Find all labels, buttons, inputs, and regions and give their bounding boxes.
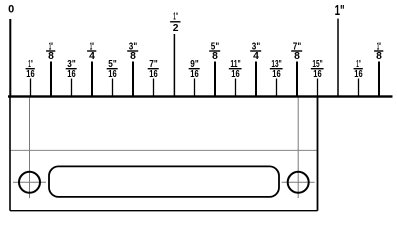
- svg-text:4: 4: [253, 51, 259, 62]
- svg-text:16: 16: [313, 69, 322, 80]
- svg-text:16: 16: [190, 69, 199, 80]
- svg-text:0: 0: [8, 4, 14, 16]
- svg-text:8: 8: [48, 51, 54, 62]
- svg-text:16: 16: [108, 69, 117, 80]
- svg-text:4: 4: [89, 51, 95, 62]
- svg-text:16: 16: [67, 69, 76, 80]
- svg-text:16: 16: [231, 69, 240, 80]
- svg-text:8: 8: [294, 51, 300, 62]
- svg-text:16: 16: [272, 69, 281, 80]
- svg-text:16: 16: [354, 69, 363, 80]
- svg-text:1": 1": [173, 12, 178, 23]
- svg-text:16: 16: [26, 69, 35, 80]
- svg-text:1": 1": [335, 2, 345, 19]
- svg-text:8: 8: [212, 51, 218, 62]
- svg-text:8: 8: [376, 51, 382, 62]
- svg-text:2: 2: [173, 23, 179, 34]
- svg-text:16: 16: [149, 69, 158, 80]
- svg-text:8: 8: [130, 51, 136, 62]
